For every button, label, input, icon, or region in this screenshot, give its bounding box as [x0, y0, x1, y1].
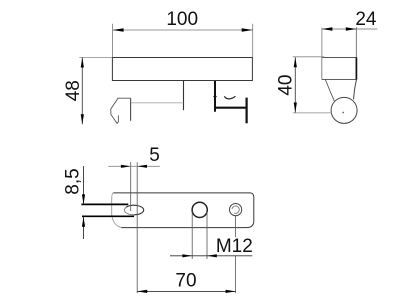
dim 5: left extension line: [130, 162, 132, 211]
plan view: strap rounded left end: [112, 193, 122, 228]
dim 24: left extension line: [321, 28, 323, 58]
dim 70: dimension line: [137, 290, 235, 292]
front view: screw T-handle: [246, 98, 248, 124]
front view: clamp body bar: [112, 58, 252, 81]
dim M12: right arrow: [207, 254, 217, 257]
dim 70: right extension upper segment from threaded hole: [235, 216, 237, 237]
dim 24: right arrow: [346, 27, 357, 30]
dim 8,5: lower extension line (thick): [82, 215, 134, 217]
side view: eye circle: [331, 97, 357, 123]
plan view: middle hole: [192, 202, 207, 217]
dim 70: right arrow: [226, 290, 236, 293]
dim 8,5: upper extension line (thick): [81, 203, 128, 205]
plan view: slot hole: [126, 205, 144, 215]
side view: body box top edge: [322, 57, 357, 59]
side view: body box right edge (thick): [355, 57, 357, 79]
front view: claw hook right edge: [130, 98, 132, 121]
dim 48: up arrow: [81, 58, 84, 68]
dim 8,5: upper dimension line: [83, 166, 85, 204]
front view: claw hook outline: [111, 98, 131, 123]
dim M12: left extension line from middle hole: [191, 212, 193, 260]
front view: tick on stem edge: [213, 96, 216, 98]
front view: hidden rod line: [131, 102, 183, 104]
svg-text:M12: M12: [216, 236, 253, 257]
dim 70: left arrow: [137, 290, 147, 293]
dim 70: right extension lower segment: [235, 255, 237, 293]
plan view: strap outline: [113, 193, 254, 228]
side view: body box left edge: [321, 58, 323, 80]
dim 5: right arrow: [137, 165, 147, 168]
front view: stem right edge (thick): [214, 81, 216, 112]
dim 24: dimension line: [322, 28, 377, 30]
svg-text:5: 5: [149, 145, 160, 166]
dim 100: right arrow: [242, 28, 253, 32]
front view: stem left edge: [183, 81, 185, 110]
dim 100: left arrow: [113, 28, 124, 32]
dim 40: down arrow: [294, 103, 297, 113]
dim 8,5: down arrow: [82, 194, 85, 204]
side view: eye center dot: [342, 112, 344, 114]
front view: clamp screw shaft: [214, 107, 246, 109]
svg-text:8,5: 8,5: [63, 168, 84, 194]
front view: break (tilde) mark on screw: [224, 96, 235, 99]
dim 48: top extension line: [79, 57, 112, 59]
dim 5: right extension line (long, shared with dim 70): [136, 162, 138, 293]
dim 40: up arrow: [294, 57, 297, 67]
dim M12: left arrow: [182, 254, 192, 257]
dim 8,5: up arrow: [82, 217, 85, 227]
svg-text:70: 70: [175, 271, 196, 292]
dim 40: bottom extension line: [293, 112, 332, 114]
dim 48: down arrow: [81, 114, 84, 124]
dim 48: dimension line: [81, 58, 83, 125]
side view: left taper curve: [325, 80, 334, 101]
dim 100: left extension line: [112, 24, 114, 57]
dim M12: dimension line: [170, 255, 252, 257]
svg-text:24: 24: [355, 9, 377, 30]
dim 100: dimension line: [113, 29, 253, 31]
dim M12: right extension line from middle hole: [206, 212, 208, 260]
dim 24: right extension line: [355, 27, 357, 57]
svg-text:48: 48: [63, 80, 84, 101]
plan view: threaded hole thread arc: [232, 206, 239, 213]
svg-text:40: 40: [276, 75, 297, 96]
dim 5: dimension line: [108, 165, 159, 167]
dim 100: right extension line: [252, 24, 254, 57]
dim 8,5: lower dimension line: [83, 217, 85, 239]
svg-text:100: 100: [166, 9, 198, 30]
dim 5: left arrow: [121, 165, 131, 168]
dim 24: left arrow: [322, 27, 333, 30]
side view: body box bottom edge: [322, 78, 357, 80]
plan view: slot hole lower-left arc: [124, 207, 134, 215]
plan view: threaded hole outer circle: [230, 204, 242, 216]
side view: right taper curve: [354, 80, 357, 100]
dim 40: dimension line: [294, 57, 296, 112]
dim 40: top extension line: [293, 56, 324, 58]
